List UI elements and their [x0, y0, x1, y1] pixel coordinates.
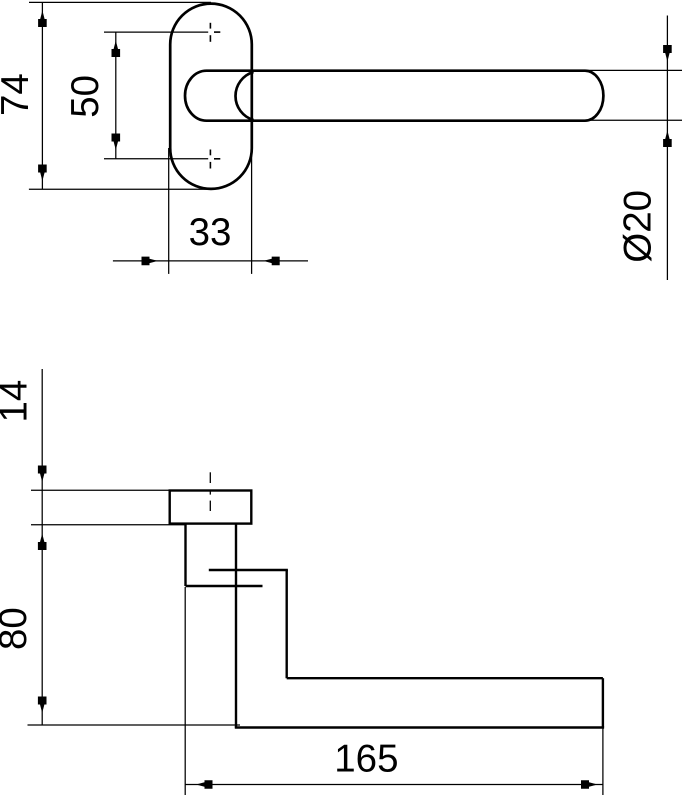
svg-text:50: 50 [64, 75, 107, 118]
svg-text:74: 74 [0, 73, 37, 116]
svg-text:80: 80 [0, 607, 35, 650]
svg-text:33: 33 [189, 211, 232, 254]
svg-text:165: 165 [334, 738, 398, 781]
svg-text:14: 14 [0, 380, 36, 423]
svg-text:Ø20: Ø20 [617, 190, 660, 263]
